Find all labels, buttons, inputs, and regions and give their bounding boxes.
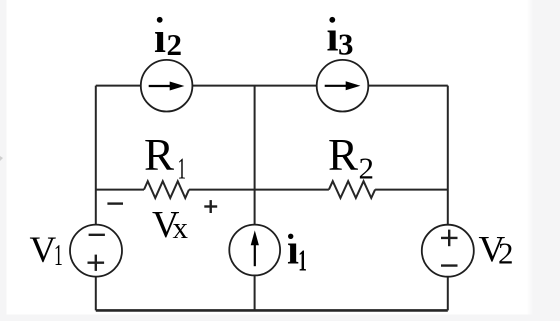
svg-text:2: 2 [498, 236, 514, 271]
svg-text:x: x [173, 210, 189, 245]
svg-text:1: 1 [298, 243, 307, 278]
svg-text:2: 2 [167, 27, 183, 62]
svg-text:1: 1 [54, 237, 63, 272]
svg-text:V: V [30, 230, 57, 271]
svg-text:1: 1 [178, 151, 187, 186]
svg-text:ı: ı [287, 227, 299, 274]
svg-text:3: 3 [338, 27, 354, 62]
svg-text:R: R [328, 130, 358, 180]
svg-text:R: R [144, 130, 174, 180]
svg-text:2: 2 [359, 151, 375, 186]
